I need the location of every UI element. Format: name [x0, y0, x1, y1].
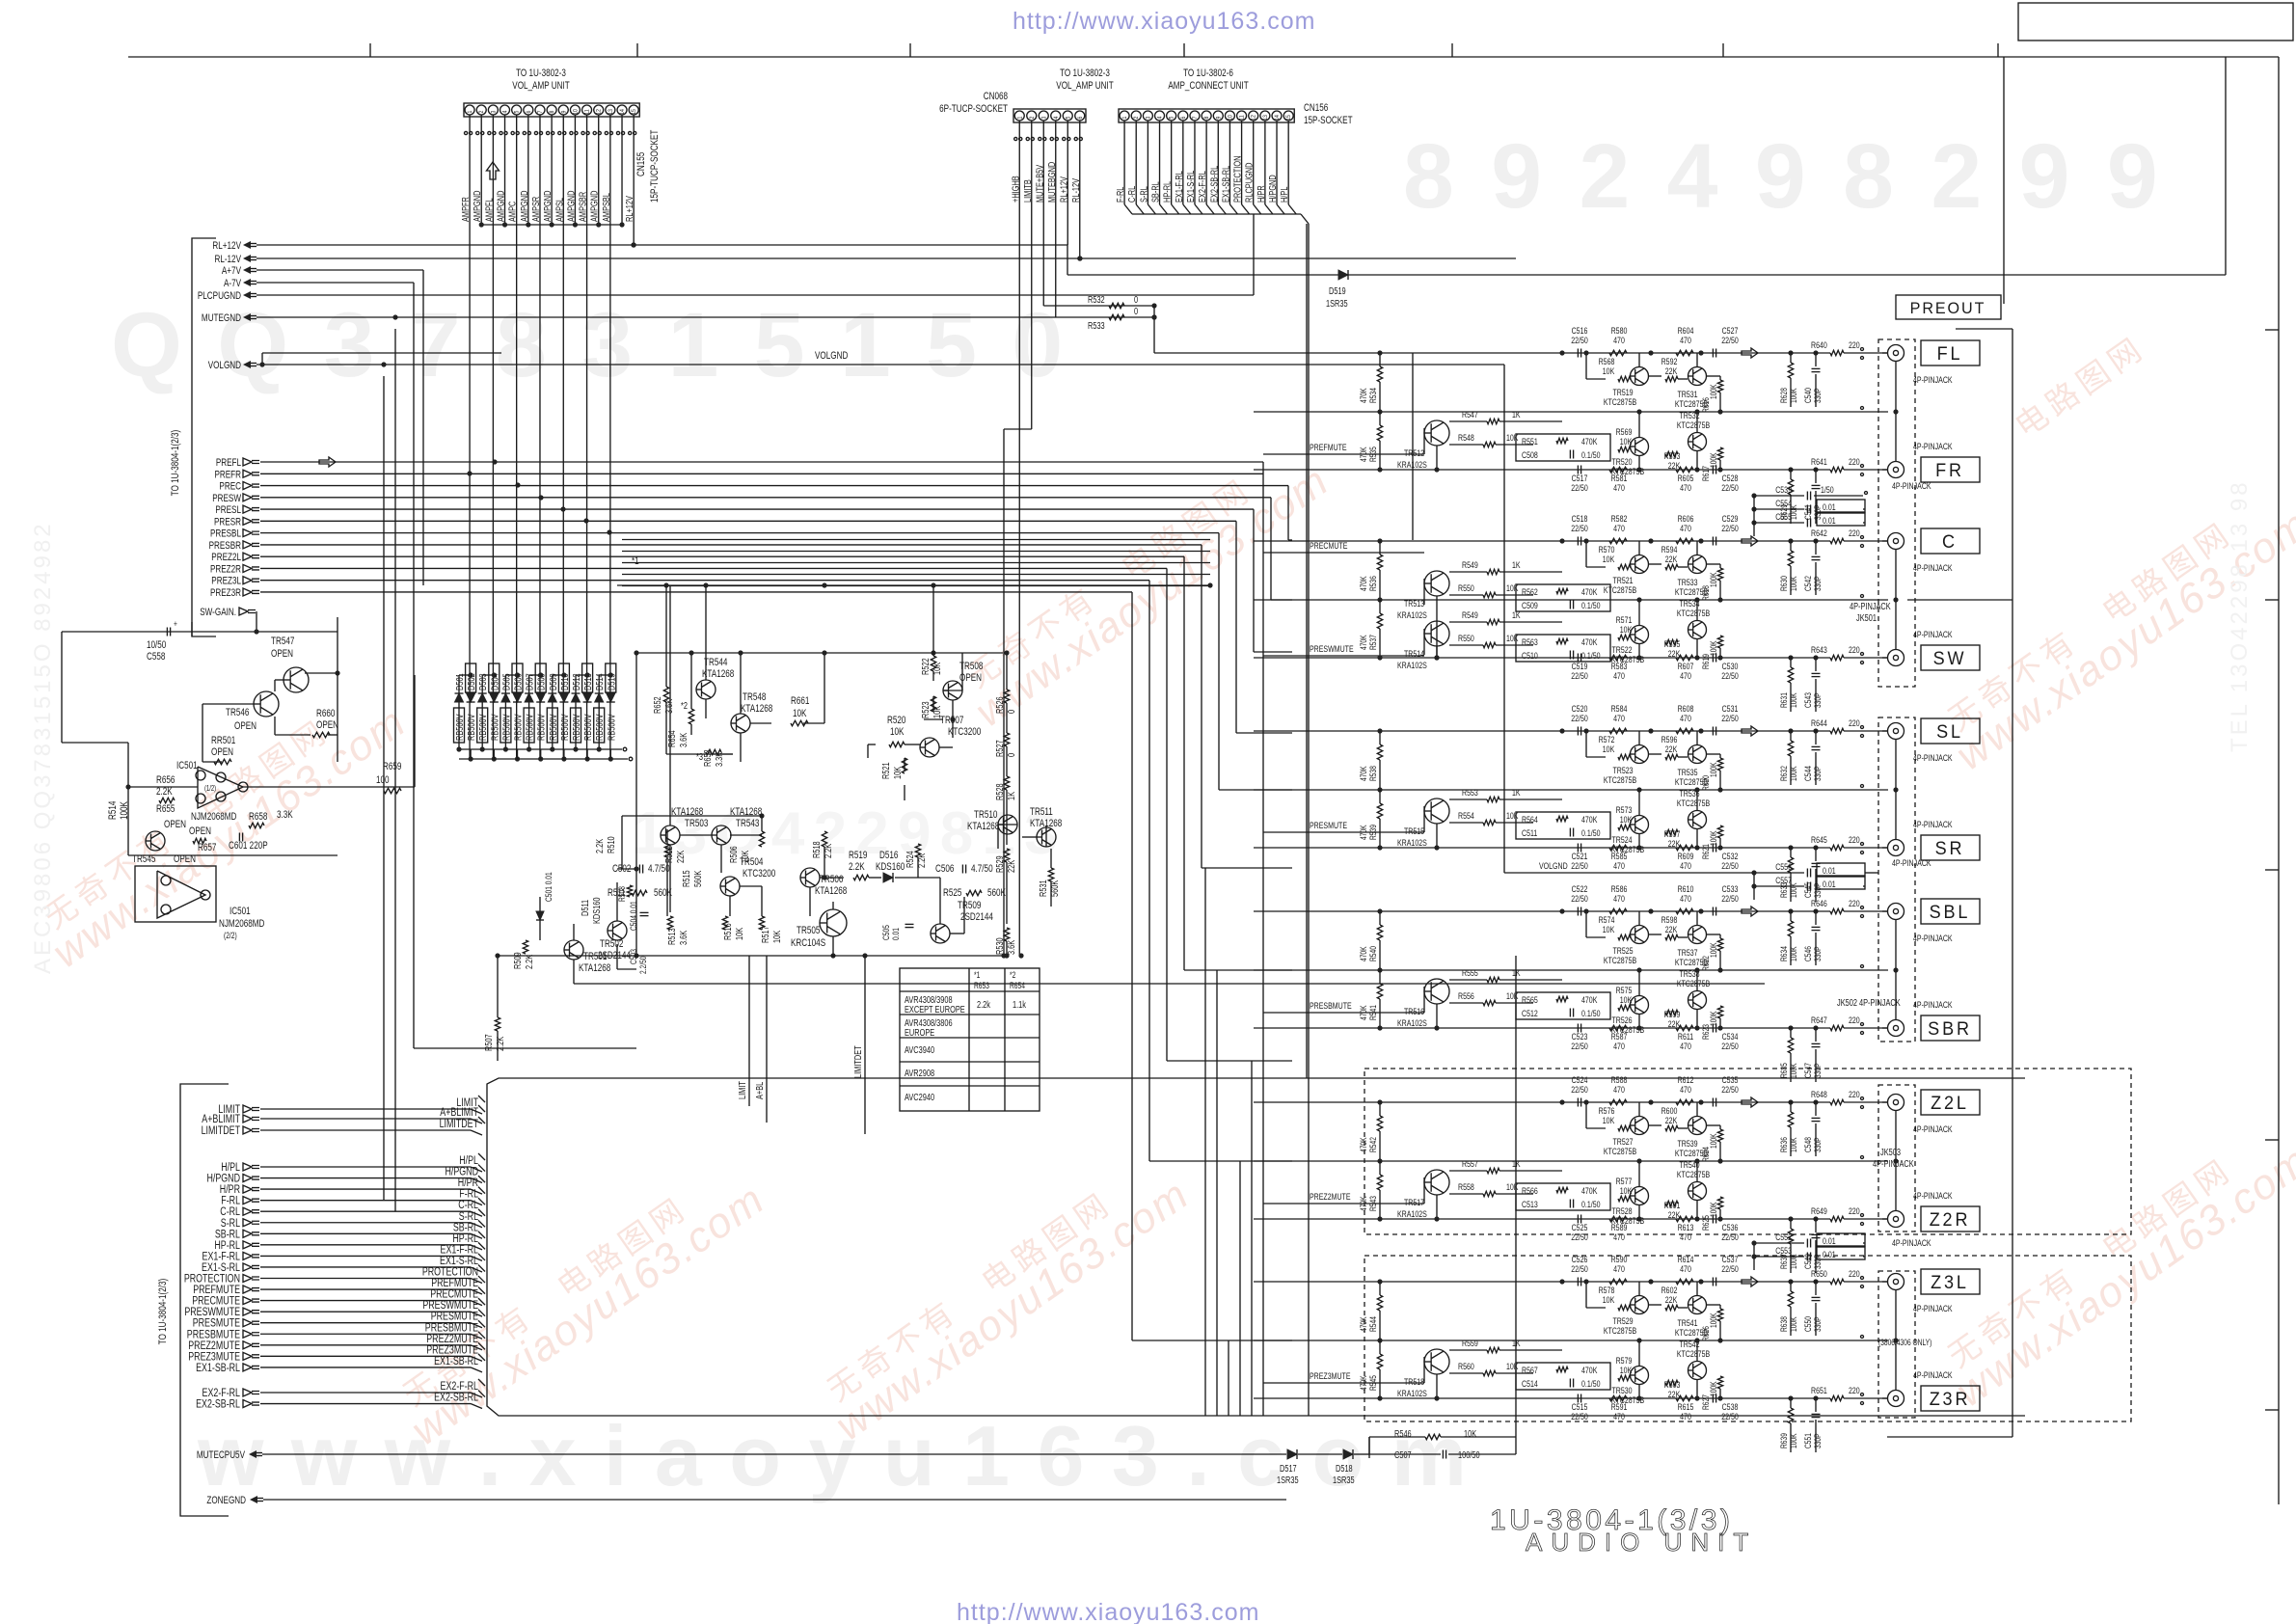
svg-text:470: 470 [1680, 860, 1691, 871]
svg-text:0.01: 0.01 [1823, 501, 1836, 512]
svg-text:R558: R558 [1458, 1181, 1474, 1192]
svg-text:RB500V: RB500V [512, 714, 523, 741]
svg-text:R660: R660 [316, 708, 335, 720]
svg-text:470: 470 [1680, 1411, 1691, 1421]
svg-text:470K: 470K [1359, 447, 1368, 462]
svg-text:1SR35: 1SR35 [1333, 1475, 1355, 1485]
model option table [900, 968, 1040, 1111]
svg-text:(3806/4306 ONLY): (3806/4306 ONLY) [1878, 1338, 1932, 1347]
text 4P-PINJACK Z2R [1254, 1101, 1786, 1103]
svg-text:RB500V: RB500V [548, 714, 558, 741]
svg-text:220: 220 [1849, 644, 1860, 655]
svg-text:C543: C543 [1803, 692, 1813, 708]
text 4P-PINJACK FR [1154, 352, 1786, 354]
riser A-7V continuation [413, 283, 415, 1048]
svg-text:470: 470 [1613, 893, 1625, 904]
svg-text:PREZ2L: PREZ2L [211, 552, 241, 564]
svg-text:KRA102S: KRA102S [1397, 660, 1427, 670]
svg-text:22/50: 22/50 [1571, 860, 1588, 871]
svg-text:PRESR: PRESR [214, 516, 241, 528]
svg-text:AUDIO UNIT: AUDIO UNIT [1526, 1528, 1757, 1556]
svg-text:330P: 330P [1813, 576, 1823, 591]
svg-text:D518: D518 [1336, 1463, 1353, 1474]
svg-text:C547: C547 [1803, 1063, 1813, 1078]
svg-text:RB500V: RB500V [536, 714, 547, 741]
svg-text:220: 220 [1849, 1205, 1860, 1216]
svg-text:470K: 470K [1581, 636, 1598, 647]
svg-text:100: 100 [376, 774, 390, 787]
riser A+BLIMIT [766, 956, 768, 1123]
svg-text:1SR35: 1SR35 [1277, 1475, 1299, 1485]
svg-text:220: 220 [1849, 898, 1860, 908]
svg-text:4P-PINJACK: 4P-PINJACK [1913, 999, 1953, 1010]
diode D514 [598, 675, 600, 749]
svg-text:470K: 470K [1359, 1005, 1368, 1020]
svg-text:KTC2875B: KTC2875B [1677, 1348, 1711, 1359]
open arrow on PREFL [319, 457, 336, 467]
svg-text:R642: R642 [1811, 528, 1827, 538]
svg-text:22/50: 22/50 [1721, 1411, 1739, 1421]
svg-text:C545: C545 [1803, 882, 1813, 898]
capacitor C552 0.01 [1754, 1242, 1804, 1244]
CN068 pin2 step wire [1004, 428, 1032, 430]
svg-text:TEL 13O42298 13 98: TEL 13O42298 13 98 [2227, 479, 2253, 752]
pink watermark right-up [1931, 475, 2296, 779]
wire PREZ2L riser [1183, 556, 1185, 970]
CN156 bus line [1132, 213, 1301, 215]
svg-text:R528: R528 [994, 783, 1005, 800]
svg-text:R514: R514 [107, 800, 120, 820]
capacitor C556 0.01 [1504, 872, 1804, 874]
svg-text:C540: C540 [1803, 388, 1813, 403]
bracket TO 1U-3804-1(2/3) top section [192, 238, 216, 636]
svg-text:R510: R510 [606, 836, 616, 853]
svg-text:PREZ2MUTE: PREZ2MUTE [1310, 1191, 1351, 1202]
svg-text:PRESWMUTE: PRESWMUTE [1310, 643, 1354, 654]
svg-text:R542: R542 [1368, 1137, 1378, 1152]
svg-text:KDS160: KDS160 [876, 861, 905, 874]
svg-text:4P-PINJACK: 4P-PINJACK [1892, 857, 1931, 868]
svg-text:LIMITB: LIMITB [1022, 179, 1033, 203]
svg-text:4.7/50: 4.7/50 [648, 863, 670, 876]
svg-text:RL-12V: RL-12V [1070, 178, 1081, 203]
svg-text:R543: R543 [1368, 1196, 1378, 1211]
svg-text:470: 470 [1613, 860, 1625, 871]
svg-text:RLCPUGND: RLCPUGND [1244, 163, 1255, 203]
svg-text:PROTECTION: PROTECTION [1231, 156, 1242, 203]
svg-text:2.2K: 2.2K [495, 1037, 505, 1051]
svg-text:KRA102S: KRA102S [1397, 1017, 1427, 1028]
svg-text:C506: C506 [935, 863, 954, 876]
svg-text:22/50: 22/50 [1721, 670, 1739, 681]
pink watermark center-low [386, 1150, 773, 1454]
svg-text:AEC39806 QQ37831515O 8924982: AEC39806 QQ37831515O 8924982 [30, 521, 56, 974]
svg-text:RB500V: RB500V [500, 714, 511, 741]
svg-text:TR546: TR546 [226, 707, 249, 719]
svg-text:TR548: TR548 [743, 691, 766, 704]
svg-text:470K: 470K [1581, 1365, 1598, 1375]
svg-text:RB500V: RB500V [525, 714, 535, 741]
diode D519 supply line [1067, 274, 2226, 276]
svg-text:http://www.xiaoyu163.com: http://www.xiaoyu163.com [1013, 8, 1315, 35]
svg-text:LIMIT: LIMIT [737, 1081, 747, 1099]
dashed box Z3 zone [1364, 1256, 2131, 1421]
svg-text:PREZ3MUTE: PREZ3MUTE [1310, 1370, 1351, 1381]
svg-text:AMPFL: AMPFL [483, 198, 494, 222]
svg-text:C550: C550 [1803, 1316, 1813, 1332]
riser LIMITDET [864, 956, 866, 1134]
svg-text:R549: R549 [1462, 609, 1478, 620]
svg-text:220: 220 [1849, 456, 1860, 467]
svg-text:470K: 470K [1359, 1196, 1368, 1211]
svg-text:A+BL: A+BL [754, 1082, 765, 1099]
svg-text:D505: D505 [500, 673, 511, 690]
svg-text:RB500V: RB500V [559, 714, 570, 741]
svg-text:22/50: 22/50 [1571, 1232, 1588, 1242]
wire PRESBL riser [1218, 533, 1220, 790]
svg-text:R525: R525 [943, 887, 961, 900]
svg-text:4P-PINJACK: 4P-PINJACK [1913, 629, 1953, 639]
svg-text:R654: R654 [666, 730, 677, 747]
svg-text:IC501: IC501 [176, 760, 198, 772]
svg-text:3.6K: 3.6K [678, 931, 689, 945]
svg-text:Z3R: Z3R [1930, 1389, 1971, 1410]
gray vertical text right edge [2227, 479, 2253, 752]
svg-text:6P-TUCP-SOCKET: 6P-TUCP-SOCKET [939, 103, 1008, 116]
svg-text:MUTECPU5V: MUTECPU5V [197, 1449, 246, 1462]
svg-text:1K: 1K [1512, 609, 1521, 620]
svg-text:AMPGND: AMPGND [519, 191, 529, 222]
right outline wires [1956, 328, 2012, 330]
svg-text:10K: 10K [1603, 1115, 1615, 1125]
svg-text:FL: FL [1937, 343, 1963, 365]
svg-text:R646: R646 [1811, 898, 1827, 908]
svg-text:MUTEGND: MUTEGND [202, 312, 241, 325]
svg-text:JK501: JK501 [1856, 612, 1877, 623]
svg-text:22K: 22K [1665, 924, 1678, 934]
svg-text:4P-PINJACK: 4P-PINJACK [1913, 819, 1953, 829]
svg-text:TR543: TR543 [736, 818, 759, 830]
svg-text:C514: C514 [1522, 1378, 1538, 1389]
transistor TR506 KTA1268 [800, 868, 820, 887]
svg-text:AMPGND: AMPGND [589, 191, 600, 222]
long vertical risers to bottom bus [1262, 462, 1264, 1416]
svg-text:1K: 1K [1512, 1338, 1521, 1348]
svg-text:PREFL: PREFL [216, 457, 242, 470]
svg-text:PRESBMUTE: PRESBMUTE [1310, 1000, 1352, 1011]
svg-text:470K: 470K [1581, 436, 1598, 447]
svg-text:PRESBL: PRESBL [210, 528, 242, 541]
svg-text:NJM2068MD: NJM2068MD [219, 918, 264, 931]
svg-text:LIMITDET: LIMITDET [852, 1045, 863, 1078]
svg-text:R506: R506 [728, 846, 739, 863]
svg-text:220: 220 [1849, 339, 1860, 350]
svg-text:22K: 22K [1665, 365, 1678, 376]
svg-text:MUTE+B5V: MUTE+B5V [1034, 165, 1044, 203]
text 4P-PINJACK SBR [1254, 910, 1786, 912]
pink watermark left [27, 673, 415, 977]
svg-text:R539: R539 [1368, 825, 1378, 840]
svg-text:KTA1268: KTA1268 [815, 885, 847, 898]
svg-text:EX1-F-RL: EX1-F-RL [1174, 171, 1184, 203]
svg-text:7: 7 [538, 111, 545, 114]
svg-text:EX2-SB-RL: EX2-SB-RL [196, 1397, 240, 1411]
svg-text:KTC2875B: KTC2875B [1604, 1146, 1637, 1156]
svg-text:JK502 4P-PINJACK: JK502 4P-PINJACK [1837, 997, 1901, 1008]
svg-text:470: 470 [1613, 335, 1625, 345]
svg-text:1K: 1K [1512, 787, 1521, 798]
svg-text:560K: 560K [692, 871, 703, 887]
extra mid horizontals [622, 539, 1210, 541]
svg-text:0.01: 0.01 [1823, 1235, 1836, 1246]
svg-text:10K: 10K [734, 928, 744, 940]
svg-text:R550: R550 [1458, 582, 1474, 593]
svg-text:470K: 470K [1359, 388, 1368, 403]
svg-text:330P: 330P [1813, 882, 1823, 898]
svg-text:OPEN: OPEN [189, 826, 211, 838]
svg-text:22/50: 22/50 [1721, 713, 1739, 723]
svg-text:R534: R534 [1368, 388, 1378, 403]
wire PREC riser [1287, 486, 1289, 540]
text 4P-PINJACK Z3R [1254, 1281, 1786, 1283]
svg-text:A+7V: A+7V [222, 265, 242, 278]
svg-text:11: 11 [584, 109, 591, 114]
svg-text:470K: 470K [1581, 994, 1598, 1005]
svg-text:R659: R659 [383, 761, 401, 773]
diode D512 [575, 675, 577, 749]
TR546 TR547 wires [305, 672, 338, 674]
svg-text:VOLGND: VOLGND [815, 350, 848, 363]
svg-text:PREFR: PREFR [214, 469, 241, 481]
svg-text:TR511: TR511 [1030, 806, 1053, 819]
middle cluster connecting wires [665, 585, 667, 687]
svg-text:R644: R644 [1811, 717, 1827, 728]
svg-text:OPEN: OPEN [271, 648, 293, 661]
svg-text:MUTEBGND: MUTEBGND [1046, 162, 1057, 203]
svg-text:R550: R550 [1458, 633, 1474, 643]
svg-text:TR518: TR518 [1404, 1376, 1424, 1387]
svg-text:1.1k: 1.1k [1013, 999, 1026, 1010]
svg-text:R521: R521 [880, 762, 891, 779]
svg-text:R513: R513 [666, 928, 677, 945]
svg-text:PREZ3R: PREZ3R [210, 587, 241, 600]
svg-text:C510: C510 [1522, 650, 1538, 661]
svg-text:C557: C557 [1775, 875, 1792, 885]
capacitor C557 0.01 [1754, 885, 1804, 887]
svg-text:R545: R545 [1368, 1375, 1378, 1391]
CN156 pin wires and labels [1123, 122, 1125, 204]
svg-text:470: 470 [1613, 713, 1625, 723]
svg-text:(1/2): (1/2) [204, 785, 216, 793]
diode D515 [606, 663, 616, 692]
svg-text:470: 470 [1613, 482, 1625, 493]
svg-text:PREC: PREC [219, 480, 241, 493]
svg-text:C552: C552 [1775, 1232, 1792, 1242]
svg-text:C-RL: C-RL [1126, 186, 1137, 203]
svg-text:AMP_CONNECT UNIT: AMP_CONNECT UNIT [1168, 80, 1248, 93]
svg-text:1K: 1K [1512, 409, 1521, 420]
svg-text:15: 15 [632, 108, 638, 114]
svg-text:1/50: 1/50 [1821, 484, 1834, 495]
svg-text:(2/2): (2/2) [224, 931, 237, 940]
svg-text:1SR35: 1SR35 [1326, 298, 1348, 309]
pink watermark mid-bottom [810, 1146, 1198, 1449]
svg-text:22K: 22K [1665, 554, 1678, 564]
wire PREZ2R riser [1166, 568, 1168, 1061]
svg-text:KRA102S: KRA102S [1397, 1208, 1427, 1219]
svg-text:10K: 10K [1506, 582, 1519, 593]
svg-text:13: 13 [1262, 114, 1269, 120]
diode D508 [535, 663, 546, 692]
svg-text:Z3L: Z3L [1931, 1272, 1969, 1293]
svg-text:15P-TUCP-SOCKET: 15P-TUCP-SOCKET [649, 130, 662, 203]
svg-text:10K: 10K [1506, 810, 1519, 821]
svg-text:OPEN: OPEN [164, 819, 186, 831]
svg-text:220: 220 [1849, 717, 1860, 728]
left risers to bottom [383, 376, 385, 1200]
svg-text:D511: D511 [580, 900, 590, 916]
svg-text:EX2-SB-RL: EX2-SB-RL [434, 1391, 478, 1404]
svg-text:A-7V: A-7V [224, 278, 242, 290]
svg-text:R554: R554 [1458, 810, 1474, 821]
svg-text:AMPSR: AMPSR [530, 197, 541, 222]
svg-text:D514: D514 [594, 673, 605, 690]
svg-text:http://www.xiaoyu163.com: http://www.xiaoyu163.com [957, 1599, 1259, 1624]
svg-text:14: 14 [620, 108, 627, 114]
svg-text:470: 470 [1613, 1084, 1625, 1095]
diode array bottom rails [459, 748, 622, 750]
svg-text:C504 0.01: C504 0.01 [629, 901, 638, 931]
svg-text:10K: 10K [1506, 1361, 1519, 1371]
svg-text:8 9 2 4 9 8 2 9 9: 8 9 2 4 9 8 2 9 9 [1403, 125, 2164, 228]
svg-text:470: 470 [1613, 1041, 1625, 1051]
connector CN155 15P-TUCP-SOCKET [464, 103, 639, 117]
svg-text:AMPGND: AMPGND [495, 191, 505, 222]
svg-text:470: 470 [1680, 482, 1691, 493]
svg-text:R533: R533 [1088, 320, 1105, 331]
svg-text:R650: R650 [1811, 1268, 1827, 1279]
svg-text:3.3K: 3.3K [277, 809, 293, 822]
svg-text:RL-12V: RL-12V [214, 254, 241, 266]
svg-text:330P: 330P [1813, 1063, 1823, 1078]
svg-text:*1: *1 [632, 555, 639, 568]
dashed box JK502 pinjacks SL SR SBL SBR [1878, 717, 1915, 1042]
svg-text:1: 1 [1122, 117, 1129, 120]
svg-text:RB500V: RB500V [582, 714, 593, 741]
svg-text:HP-RL: HP-RL [1162, 181, 1173, 203]
svg-text:220: 220 [1849, 1385, 1860, 1395]
svg-text:R529: R529 [994, 855, 1005, 873]
svg-text:220: 220 [1849, 1015, 1860, 1025]
transistor TR546 OPEN [254, 691, 279, 717]
junction rail mid upper [636, 652, 1003, 654]
svg-text:VOLGND: VOLGND [1539, 860, 1568, 871]
svg-text:470: 470 [1680, 1232, 1691, 1242]
resistor RB500V col11 [571, 708, 581, 743]
svg-text:22/50: 22/50 [1721, 1084, 1739, 1095]
svg-text:PRESL: PRESL [215, 504, 241, 517]
svg-text:SB-RL: SB-RL [1149, 181, 1160, 203]
CN156 bus riser [1308, 224, 1310, 1416]
svg-text:TO 1U-3802-6: TO 1U-3802-6 [1183, 68, 1233, 80]
svg-text:R538: R538 [1368, 766, 1378, 781]
svg-text:KTA1268: KTA1268 [579, 962, 610, 975]
svg-text:R654: R654 [1010, 981, 1025, 990]
wire from top border right [2225, 57, 2227, 275]
svg-text:R656: R656 [156, 774, 175, 787]
svg-text:LIMITDET: LIMITDET [202, 1124, 241, 1138]
svg-text:C539: C539 [1775, 484, 1792, 495]
svg-text:4P-PINJACK: 4P-PINJACK [1913, 1369, 1953, 1380]
svg-text:AMPGND: AMPGND [472, 191, 482, 222]
svg-text:11: 11 [1239, 115, 1246, 120]
svg-text:R643: R643 [1811, 644, 1827, 655]
svg-text:TR544: TR544 [704, 657, 728, 669]
svg-text:7: 7 [1193, 117, 1200, 120]
wire PRESW riser [1270, 498, 1272, 600]
svg-text:KTA1268: KTA1268 [741, 703, 772, 716]
svg-text:TR503: TR503 [685, 818, 708, 830]
connector CN156 15P-SOCKET [1119, 109, 1294, 122]
svg-text:0.01: 0.01 [1823, 1249, 1836, 1259]
svg-text:OPEN: OPEN [316, 719, 338, 732]
diode D519 1SR35 [1338, 270, 1348, 280]
svg-text:R636: R636 [1779, 1137, 1789, 1152]
CN155 ground bus line [481, 224, 622, 226]
svg-text:R524: R524 [905, 851, 915, 868]
svg-text:10: 10 [1228, 114, 1234, 120]
svg-text:C548: C548 [1803, 1137, 1813, 1152]
svg-text:C558: C558 [147, 651, 165, 663]
svg-text:330P: 330P [1813, 1316, 1823, 1332]
diode D513 [582, 663, 593, 692]
svg-text:H/PR: H/PR [1256, 185, 1266, 203]
svg-text:1K: 1K [1512, 1158, 1521, 1169]
svg-text:0.1/50: 0.1/50 [1581, 827, 1601, 838]
svg-text:9: 9 [561, 111, 568, 114]
diode D504 [489, 663, 500, 692]
svg-text:C555: C555 [1775, 511, 1792, 522]
diode D507 [528, 675, 530, 749]
svg-text:2.2K: 2.2K [594, 839, 605, 853]
svg-text:330P: 330P [1813, 1254, 1823, 1269]
svg-text:22/50: 22/50 [1571, 1041, 1588, 1051]
text 4P-PINJACK SW [1254, 540, 1786, 542]
svg-text:RB500V: RB500V [571, 714, 581, 741]
svg-text:H/PL: H/PL [1279, 186, 1289, 203]
svg-text:2.2K: 2.2K [524, 955, 534, 969]
svg-text:4P-PINJACK: 4P-PINJACK [1913, 1303, 1953, 1313]
svg-text:D501: D501 [454, 673, 465, 690]
svg-text:4P-PINJACK: 4P-PINJACK [1913, 374, 1953, 385]
svg-text:PRESBR: PRESBR [209, 540, 241, 553]
svg-text:470: 470 [1613, 523, 1625, 533]
svg-text:TR547: TR547 [271, 636, 294, 648]
svg-text:22/50: 22/50 [1571, 1263, 1588, 1274]
svg-text:R519: R519 [849, 850, 867, 862]
svg-text:C553: C553 [1775, 1245, 1792, 1256]
svg-text:PRESMUTE: PRESMUTE [1310, 820, 1347, 830]
svg-text:4P-PINJACK: 4P-PINJACK [1892, 480, 1931, 491]
svg-text:22/50: 22/50 [1571, 670, 1588, 681]
svg-text:470: 470 [1680, 893, 1691, 904]
gray vertical text left edge [30, 521, 56, 974]
svg-text:TR509: TR509 [958, 900, 981, 912]
svg-text:0.01: 0.01 [1823, 865, 1836, 876]
svg-text:22K: 22K [1665, 1294, 1678, 1305]
svg-text:10K: 10K [1603, 1294, 1615, 1305]
svg-text:RL+12V: RL+12V [1058, 176, 1068, 203]
